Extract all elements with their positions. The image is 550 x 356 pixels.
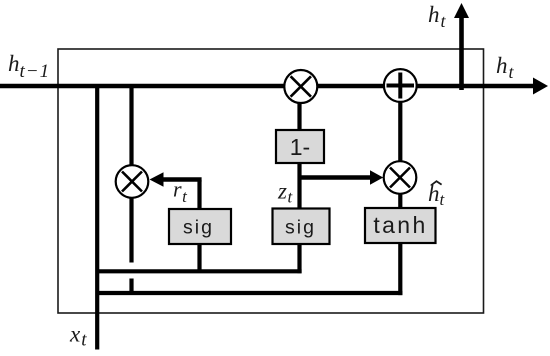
op: add circle C bbox=[384, 69, 417, 102]
wire: tanh bottom to bus 2 corner bbox=[398, 242, 402, 295]
wire: main h line bbox=[0, 84, 535, 88]
wire: 1- box to sig2 box bbox=[297, 161, 301, 210]
wire: plus branch: circle C bottom to circle D top bbox=[398, 101, 402, 162]
op: multiply circle A (reset gate) bbox=[116, 165, 149, 198]
wire: sig2 bottom to bus 1 corner bbox=[297, 243, 301, 273]
box: 1- bbox=[276, 130, 324, 163]
arrowhead into circle D bbox=[370, 170, 383, 184]
wire: output up shaft bbox=[459, 16, 464, 90]
svg-text:sig: sig bbox=[183, 217, 214, 239]
wire: circle D bottom to tanh bbox=[398, 194, 402, 211]
arrowhead h_t right bbox=[533, 78, 548, 95]
wire: bus 1 bbox=[96, 269, 302, 273]
box: sig (reset gate) bbox=[169, 209, 231, 244]
wire: z_t arrow line into circle D bbox=[300, 175, 372, 179]
wire: reset branch vertical to bus 2 bbox=[129, 279, 133, 296]
op: multiply circle D (candidate) bbox=[384, 161, 417, 194]
op: multiply circle B (on main line) bbox=[284, 70, 317, 103]
wire: reset branch vertical upper bbox=[129, 86, 133, 166]
label h-hat_t bbox=[428, 181, 446, 209]
arrowhead into circle A bbox=[150, 172, 164, 186]
box: sig (update gate) bbox=[273, 209, 330, 245]
wire: z branch: circle B bottom to 1- box bbox=[297, 103, 301, 132]
arrowhead h_t up bbox=[454, 3, 469, 18]
wire: r_t arrow line into circle A bbox=[160, 177, 202, 181]
wire: x_t vertical bbox=[95, 84, 99, 350]
wire: sig1 connector down to bus 1 bbox=[197, 180, 201, 211]
box: tanh bbox=[365, 208, 436, 243]
svg-text:sig: sig bbox=[285, 217, 316, 239]
wire: bus 2 bbox=[96, 291, 402, 295]
wire: reset branch vertical below circle, with hop gap bbox=[129, 198, 133, 263]
svg-text:tanh: tanh bbox=[373, 212, 427, 238]
outer cell box bbox=[58, 49, 484, 313]
svg-text:1-: 1- bbox=[290, 134, 310, 160]
